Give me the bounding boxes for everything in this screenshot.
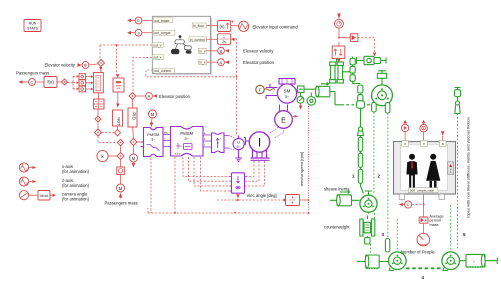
I base dashed lines — [247, 161, 265, 186]
port label out_torque — [153, 30, 175, 35]
rope anchor top — [357, 101, 365, 112]
node B right: in_v — [206, 47, 229, 54]
label Elevator position right — [243, 60, 275, 65]
counterweight bottom connector — [365, 236, 371, 255]
sum block — [117, 167, 125, 184]
svg-text:1: 1 — [223, 35, 225, 39]
svg-text:Elevator input command: Elevator input command — [253, 24, 299, 29]
node B input: Elevator velocity — [78, 62, 98, 69]
selector block 2 — [79, 80, 86, 86]
purple dotted E to I — [269, 128, 284, 139]
sheave inertia block — [330, 191, 360, 206]
junction diamond d2 — [95, 129, 102, 136]
rope segment above left pulley — [385, 239, 389, 253]
svg-text:in_v: in_v — [199, 49, 206, 53]
cab top port v — [421, 141, 428, 147]
field F source — [256, 85, 275, 93]
staircase input block — [206, 21, 230, 32]
cab top port a — [439, 141, 446, 147]
node C cab — [399, 201, 412, 208]
torque actuator top — [357, 56, 387, 64]
label Average person mass — [430, 214, 444, 227]
rope to right pulley — [450, 205, 452, 251]
port label in_v — [198, 48, 206, 53]
ropes annotation rotated — [466, 117, 471, 218]
svg-text:M: M — [132, 156, 136, 161]
svg-text:sheave inertia: sheave inertia — [324, 187, 350, 192]
label Elevator velocity right — [243, 49, 274, 54]
cab accel arrow — [441, 131, 445, 140]
rope number 3 — [382, 232, 385, 237]
port label in_control — [189, 37, 206, 42]
source circle x-axis — [19, 163, 36, 172]
selector block 3 — [79, 86, 86, 92]
elec angle converter block — [230, 173, 247, 199]
pulley straps — [372, 103, 390, 113]
svg-text:C: C — [31, 80, 34, 85]
label Passengers mass top — [16, 71, 49, 76]
brake link wire — [337, 59, 351, 72]
cab sensor circle 1 — [401, 120, 408, 141]
source circle camera angle — [19, 191, 38, 200]
label z-axis — [62, 178, 90, 188]
node M2 circle with down arrow — [130, 154, 138, 168]
red dotted feedback speed line — [308, 106, 310, 214]
rope sheave to counterweight — [369, 210, 375, 219]
chart block (Stateflow) — [152, 16, 212, 75]
junction diamond d1 — [95, 116, 101, 129]
svg-text:mass: mass — [430, 223, 439, 227]
rope number 2 — [378, 174, 381, 179]
svg-text:Elevator velocity: Elevator velocity — [243, 49, 274, 54]
sheave inertia label — [324, 187, 350, 192]
svg-text:U: U — [237, 140, 240, 145]
label Elevator velocity left — [45, 63, 76, 68]
bottom inertia below counterweight — [357, 255, 388, 269]
port label out_brake — [153, 18, 173, 23]
rope dotted pulley right down — [387, 113, 389, 238]
traction sheave — [360, 191, 377, 212]
node A mid: Elevator position — [146, 93, 157, 100]
rope number 4 — [422, 275, 425, 280]
svg-text:B: B — [84, 63, 87, 68]
svg-text:out_control: out_control — [154, 69, 171, 73]
svg-text:PMSM: PMSM — [147, 132, 159, 137]
svg-text:out_torque: out_torque — [154, 31, 170, 35]
svg-text:Number of People: Number of People — [401, 249, 435, 254]
svg-text:counterweight: counterweight — [324, 225, 350, 230]
dashed fan to selector blocks — [68, 75, 80, 90]
I inertia circle — [249, 132, 269, 161]
counterweight — [360, 216, 375, 237]
wire out_x dashed — [133, 58, 152, 93]
source circle z-axis — [19, 177, 36, 186]
bottom rope between pulleys — [406, 267, 442, 269]
port label out_x — [152, 55, 163, 60]
svg-text:(for animation): (for animation) — [62, 169, 90, 174]
elec angle output dashed row — [217, 199, 282, 201]
node M1 circle above PMSM — [149, 110, 157, 127]
label Passengers mass bottom — [105, 201, 138, 206]
junction diamond d4 — [117, 139, 124, 146]
cab feet — [399, 194, 444, 199]
clock source column — [335, 14, 351, 39]
mecha speed rotated label — [299, 152, 304, 186]
port label out_control — [153, 68, 174, 73]
svg-text:(for animation): (for animation) — [62, 197, 90, 202]
motor shaft interface — [297, 86, 316, 93]
rope dotted above left pulley — [396, 219, 398, 251]
PMSM controller block — [141, 128, 164, 157]
gain k block top right — [350, 34, 376, 57]
cab top port x — [402, 141, 409, 147]
svg-text:M: M — [151, 112, 155, 117]
rope number 1 — [352, 174, 355, 179]
cab button panel — [448, 162, 454, 175]
junction diamond d5 — [130, 139, 141, 155]
svg-text:2s: 2s — [222, 40, 226, 44]
svg-text:E: E — [281, 117, 286, 124]
coupling chain vertical — [350, 57, 360, 84]
I left connector — [244, 138, 250, 145]
svg-text:Elevator position: Elevator position — [159, 94, 191, 99]
PMSM drive block — [171, 127, 204, 157]
rope 1 top Y anchor — [358, 112, 364, 136]
svg-text:F: F — [259, 87, 262, 92]
label Elevator input command — [253, 24, 299, 29]
sensor to source dashes — [229, 136, 234, 151]
svg-text:f(x): f(x) — [47, 80, 54, 85]
circle k gain — [97, 150, 117, 161]
port label in_x — [198, 60, 206, 65]
elevator cab subsystem box — [394, 142, 456, 195]
svg-text:ropes with non linear stiffnes: ropes with non linear stiffness, inertia… — [466, 117, 471, 218]
svg-text:PID: PID — [132, 112, 137, 119]
svg-text:NOT: NOT — [117, 117, 122, 126]
wire out_v dashed bus — [100, 44, 152, 76]
SM motor left stubs — [266, 84, 278, 99]
brake caliper right plate — [337, 62, 343, 83]
gear down chain — [358, 85, 363, 105]
node E out_torque — [127, 29, 152, 36]
label Elevator position mid — [159, 94, 191, 99]
E sensor circle — [275, 105, 298, 129]
rotational sensor circles — [297, 93, 304, 110]
counterweight label — [324, 225, 350, 230]
svg-text:in_x: in_x — [199, 61, 206, 65]
wire out_control dashed loop — [146, 39, 237, 135]
svg-text:mecha speed [rpm]: mecha speed [rpm] — [299, 152, 304, 186]
svg-text:Passengers mass: Passengers mass — [16, 71, 49, 76]
svg-text:(for animation): (for animation) — [62, 183, 90, 188]
rope dotted from pulley to sheave — [373, 112, 375, 193]
svg-text:SM: SM — [284, 89, 291, 94]
label Number of People — [401, 249, 435, 254]
abs block |u| — [113, 74, 124, 107]
svg-text:I: I — [258, 136, 261, 150]
svg-text:a b c: a b c — [175, 153, 181, 156]
big sheave pulley — [372, 71, 393, 106]
svg-text:3~: 3~ — [185, 137, 190, 141]
svg-text:Mod: Mod — [40, 194, 47, 198]
average person mass gain — [419, 217, 428, 233]
svg-text:people_mass: people_mass — [418, 188, 435, 192]
deg conversion block — [282, 195, 309, 206]
svg-text:3~: 3~ — [237, 145, 241, 149]
svg-text:Elevator position: Elevator position — [243, 60, 275, 65]
junction diamond after f(x) — [62, 79, 68, 85]
dashed shaft link — [335, 92, 371, 105]
man silhouette — [406, 154, 417, 189]
PMSM measurement dashed lines — [183, 157, 232, 191]
junction diamond d3 — [115, 130, 121, 137]
svg-text:A: A — [148, 94, 151, 99]
svg-text:PMSM: PMSM — [180, 131, 193, 136]
block f(x) — [44, 77, 62, 88]
cab floor display — [408, 188, 438, 193]
simulink-PS converter block — [332, 42, 345, 64]
woman silhouette — [426, 154, 440, 189]
PMSM controller to drive wires — [163, 132, 171, 147]
run stats annotation box — [24, 20, 41, 32]
junction diamond d6 — [117, 146, 124, 167]
node C input: Passengers mass — [19, 79, 45, 86]
svg-text:M: M — [119, 186, 123, 191]
svg-text:A: A — [220, 60, 223, 65]
motion sensor circle — [307, 93, 316, 106]
discrete block 1/2s — [206, 34, 236, 45]
brake caliper left plate — [330, 62, 336, 83]
PID controller block — [128, 108, 137, 127]
label elec angle — [247, 193, 277, 198]
node D out_brake — [127, 17, 152, 24]
port label out_v — [152, 42, 163, 47]
mod block — [38, 191, 56, 201]
rope number 5 — [463, 232, 466, 237]
label x-axis — [62, 164, 90, 174]
svg-text:Elevator velocity: Elevator velocity — [45, 63, 76, 68]
electrical reference ground — [235, 158, 242, 161]
number of people dial — [417, 233, 430, 246]
svg-text:STATS: STATS — [27, 27, 39, 31]
bottom dashed bus — [148, 157, 309, 214]
node A right: in_x — [206, 59, 229, 66]
svg-text:out_brake: out_brake — [154, 19, 169, 23]
bottom left pulley — [389, 252, 407, 271]
cab sensor circle 2 — [420, 120, 427, 141]
lookup table block — [94, 99, 105, 116]
SM motor circle — [277, 84, 296, 103]
bottom right pulley — [442, 252, 460, 271]
bottom right inertia — [460, 254, 498, 267]
svg-text:out_x: out_x — [153, 56, 162, 60]
right rope top anchor — [454, 88, 460, 114]
junction diamond B — [98, 60, 105, 73]
node M circle bottom — [117, 184, 125, 199]
svg-text:Passengers mass: Passengers mass — [105, 201, 138, 206]
voltage source U 3~ — [233, 136, 244, 159]
junction diamond A row — [129, 93, 146, 109]
svg-text:D: D — [137, 18, 140, 23]
label camera angle — [62, 192, 90, 202]
svg-text:in_control: in_control — [190, 38, 205, 42]
dashed links cluster — [98, 127, 133, 146]
svg-text:000: 000 — [410, 188, 415, 192]
selector block 1 — [79, 74, 86, 80]
stateflow icon — [172, 35, 192, 54]
svg-text:C: C — [407, 202, 410, 207]
right rope dotted — [457, 114, 459, 250]
svg-text:3~: 3~ — [285, 94, 290, 99]
svg-text:out_v: out_v — [153, 43, 162, 47]
inertia top — [316, 82, 336, 96]
rope 1 segments — [358, 136, 363, 194]
port label in_floor — [192, 23, 206, 28]
svg-text:elec angle [deg]: elec angle [deg] — [247, 193, 277, 198]
svg-text:B: B — [220, 48, 223, 53]
svg-text:I: I — [474, 260, 475, 264]
svg-text:in_floor: in_floor — [193, 24, 205, 28]
current sensor block — [212, 133, 229, 153]
NOT block — [113, 110, 123, 130]
wires selectors to concat — [86, 75, 94, 90]
svg-text:(n): (n) — [219, 24, 225, 29]
svg-text:a: a — [442, 142, 444, 146]
concatenate block — [94, 67, 104, 99]
SM motor cap — [279, 79, 295, 85]
svg-text:RUN: RUN — [29, 22, 37, 26]
signal editor scope circle — [231, 21, 249, 31]
cab mass output wire — [412, 194, 425, 217]
svg-text:3~: 3~ — [151, 138, 156, 142]
PMSM drive right wires — [203, 132, 212, 147]
